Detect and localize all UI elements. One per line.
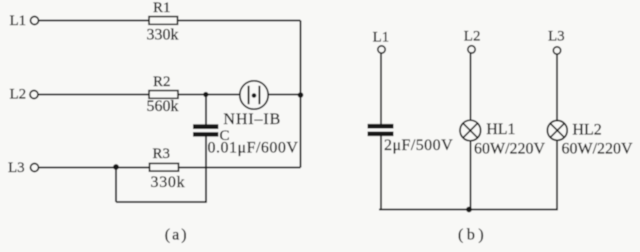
svg-text:HL2: HL2 [572, 122, 601, 139]
svg-text:L2: L2 [464, 29, 481, 45]
svg-text:L3: L3 [8, 160, 25, 176]
svg-text:(a): (a) [165, 226, 189, 243]
svg-text:2μF/500V: 2μF/500V [384, 137, 453, 154]
svg-text:NHI–IB: NHI–IB [223, 111, 281, 128]
svg-text:330k: 330k [147, 26, 179, 43]
svg-text:60W/220V: 60W/220V [562, 141, 634, 158]
svg-text:0.01μF/600V: 0.01μF/600V [208, 140, 299, 157]
svg-text:60W/220V: 60W/220V [474, 141, 546, 158]
svg-text:R1: R1 [153, 0, 171, 16]
svg-text:L2: L2 [10, 87, 27, 103]
svg-text:R2: R2 [153, 74, 171, 90]
svg-text:R3: R3 [153, 146, 171, 162]
svg-text:HL1: HL1 [486, 121, 515, 138]
svg-text:L1: L1 [10, 13, 27, 29]
svg-text:L1: L1 [373, 30, 390, 46]
svg-text:(b): (b) [458, 227, 487, 244]
svg-text:L3: L3 [548, 29, 565, 45]
svg-text:560k: 560k [147, 98, 179, 115]
svg-text:330k: 330k [151, 174, 186, 191]
